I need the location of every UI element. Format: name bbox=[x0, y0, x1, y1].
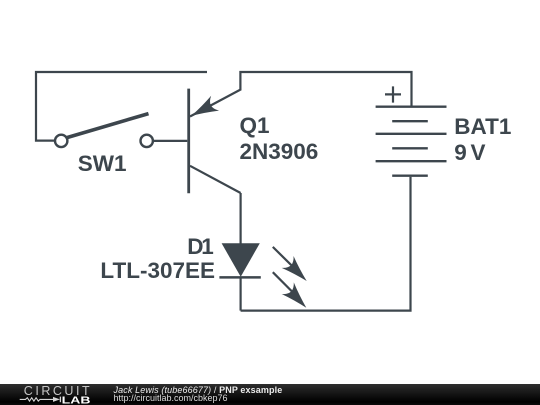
transistor Q1 bbox=[187, 89, 240, 194]
wire bbox=[36, 72, 207, 141]
label D1 bbox=[187, 234, 211, 260]
wire bbox=[240, 193, 242, 244]
switch SW1 bbox=[55, 114, 153, 147]
footer bar bbox=[0, 384, 540, 405]
CircuitLab logo bbox=[0, 384, 110, 405]
wire bbox=[154, 140, 188, 142]
label BAT1 / 9 V bbox=[454, 114, 511, 166]
LED D1 bbox=[219, 243, 312, 313]
svg-text:LAB: LAB bbox=[62, 395, 91, 405]
wire bbox=[240, 277, 242, 310]
battery BAT1 bbox=[376, 86, 447, 175]
label LTL-307EE bbox=[0, 258, 215, 284]
credit line 2 bbox=[114, 394, 228, 403]
wire bbox=[240, 72, 411, 106]
label SW1 bbox=[78, 151, 127, 177]
wire bbox=[241, 177, 411, 311]
credit line 1 bbox=[114, 386, 283, 395]
label Q1 / 2N3906 bbox=[240, 113, 319, 166]
